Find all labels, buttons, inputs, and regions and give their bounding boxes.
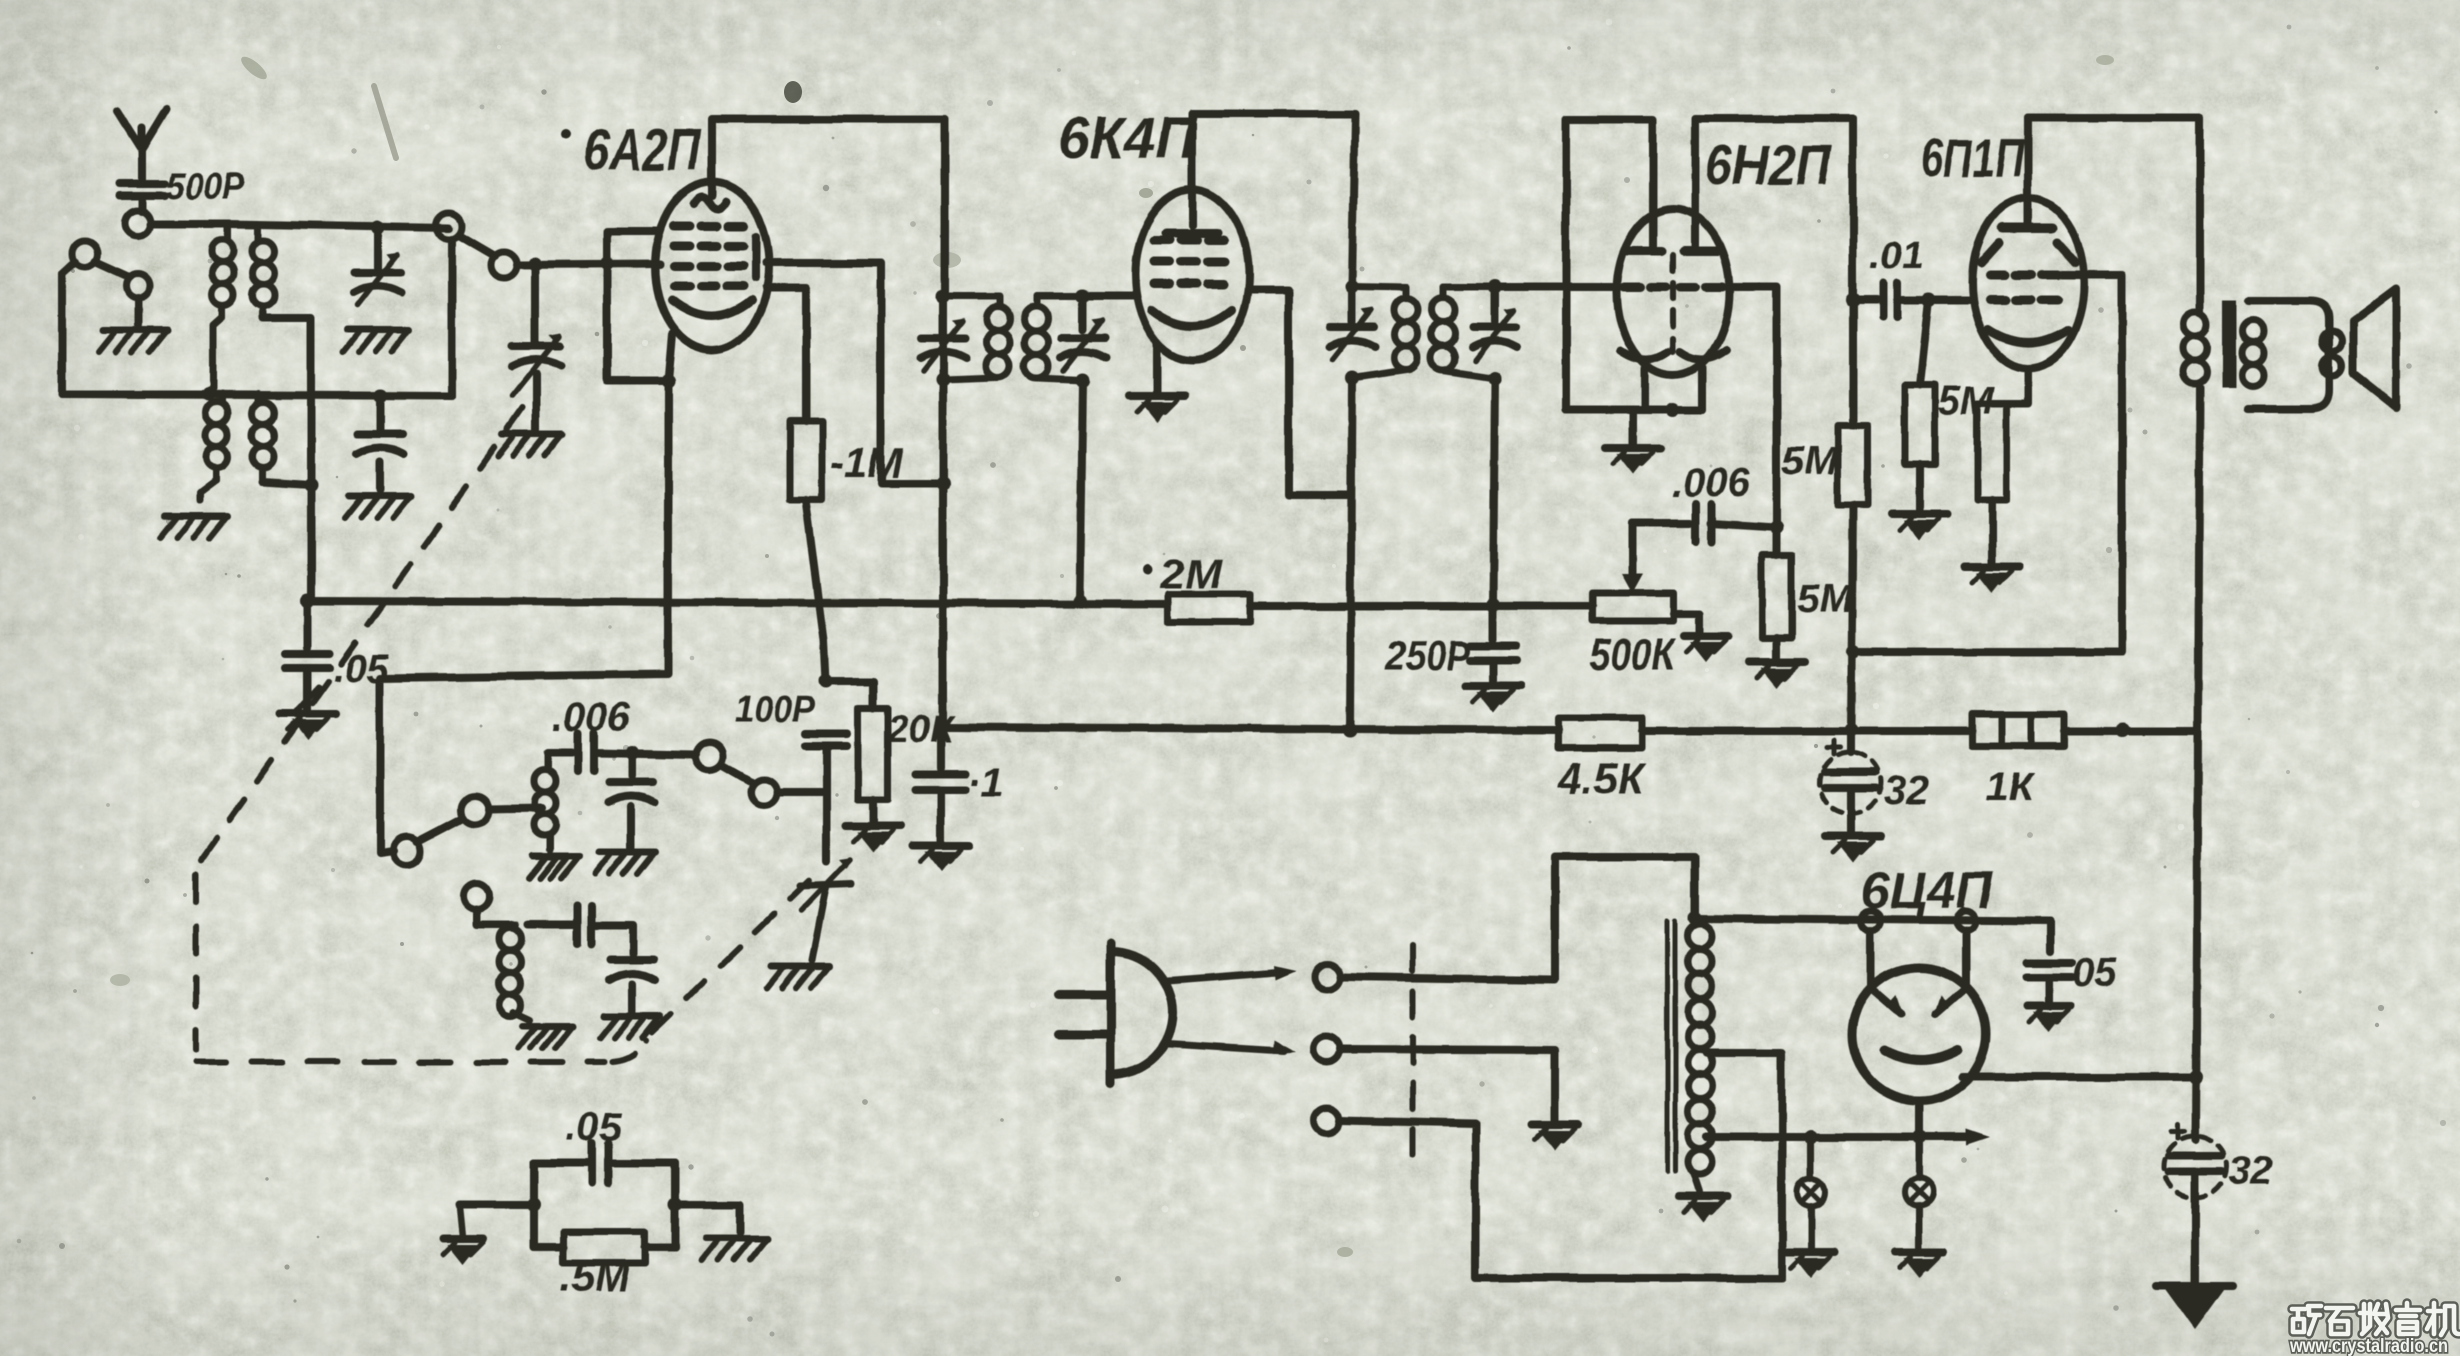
- wire C6 to ground: [628, 984, 636, 1012]
- resistor R11 2M: [1168, 594, 1250, 622]
- wire R7 to ground: [1988, 500, 1996, 562]
- ground under R6: [1892, 514, 1948, 540]
- wire plate feed: [1695, 918, 2050, 921]
- T6 winding: [1688, 924, 1713, 1175]
- label .05 bottom: [566, 1105, 622, 1149]
- terminal S1d pole: [696, 742, 724, 770]
- label tube V3 6Н2П: [1705, 133, 1833, 196]
- resistor R1 1M: [790, 421, 822, 500]
- svg-text:6К4П: 6К4П: [1058, 106, 1197, 171]
- node IFT1 top-right: [1076, 289, 1090, 303]
- wire x307 to C2: [303, 601, 311, 648]
- wire X2a: [1340, 857, 1695, 980]
- wire pot right to ground: [1673, 614, 1700, 632]
- ground under HL2: [1895, 1252, 1943, 1278]
- wire S1a contact to ground: [134, 298, 142, 325]
- node C1a top: [371, 221, 385, 235]
- trimmer C12: [1472, 287, 1518, 360]
- svg-text:·1: ·1: [968, 761, 1004, 805]
- svg-text:6А2П: 6А2П: [584, 118, 701, 183]
- wire C1a: [374, 228, 382, 268]
- wire L1a bottom: [213, 318, 222, 394]
- wire T6 bottom: [1694, 1174, 1700, 1192]
- label R6 5M: [1938, 379, 1995, 423]
- ground under R2: [845, 826, 901, 852]
- svg-text:05: 05: [2072, 951, 2117, 995]
- wire HL2 ground: [1916, 1206, 1923, 1248]
- tube V5 6Ц4П: [1852, 931, 1986, 1101]
- trimmer C4: [608, 782, 654, 802]
- dashed link X2: [1410, 945, 1416, 1172]
- wire grid leak column: [1773, 527, 1781, 555]
- watermark logo 矿石收音机: [2292, 1306, 2321, 1334]
- node V1 loop cross: [600, 257, 614, 271]
- T5 core: [2222, 300, 2236, 388]
- node RC left: [527, 1198, 541, 1212]
- capacitor C2 .05: [285, 654, 329, 668]
- node C1c tap: [528, 257, 542, 271]
- V3 grid dashes: [1624, 283, 1722, 292]
- label R5 5M: [1782, 439, 1839, 483]
- wire 250P column: [1489, 605, 1497, 640]
- label 2M: [1142, 550, 1223, 597]
- node T1 bottom: [202, 387, 216, 401]
- wire R6 to ground: [1916, 465, 1924, 510]
- node T6 top: [1688, 911, 1702, 925]
- ground under C13: [1465, 686, 1521, 712]
- switch S1b arm: [459, 235, 495, 256]
- node lamp1: [1804, 1130, 1818, 1144]
- tube V4 6П1П: [1972, 198, 2084, 368]
- wire C1b: [376, 396, 384, 430]
- wire C15 to V4 grid: [1898, 296, 1973, 304]
- plug arrow lower: [1168, 1040, 1296, 1054]
- node R1 column: [819, 674, 833, 688]
- node osc bottom: [304, 478, 318, 492]
- label R1 1M: [830, 439, 903, 486]
- ground under L2a: [160, 516, 228, 538]
- wire R2 to ground: [869, 800, 877, 822]
- node IFT2 top-right: [1488, 280, 1502, 294]
- wire RC left stub: [460, 1205, 534, 1235]
- terminal S1b pole: [436, 213, 462, 239]
- label .05: [333, 647, 389, 691]
- dashed gang link 2: [193, 874, 199, 1050]
- node IFT2 bottom-left: [1345, 371, 1359, 385]
- potentiometer R3 500K: [1593, 593, 1673, 621]
- ground under C1a: [343, 330, 409, 352]
- terminal S1c contact: [393, 837, 421, 865]
- svg-text:250Р: 250Р: [1385, 632, 1471, 679]
- ground under V2: [1129, 396, 1185, 422]
- node screen bus2: [2115, 723, 2129, 737]
- resistor R10 .5M: [534, 1231, 675, 1263]
- wire x1853 column: [1849, 119, 1857, 425]
- node out x2196: [2189, 1070, 2203, 1084]
- wire IFT1 right down: [1080, 380, 1083, 601]
- wire y394: [62, 394, 452, 396]
- wire x1352 down: [1350, 378, 1352, 730]
- label 1K: [1986, 765, 2035, 809]
- wire RC right stub: [675, 1205, 740, 1232]
- tube V1 6А2П: [655, 182, 769, 350]
- node V3 cathode: [1666, 403, 1680, 417]
- node V1 cathode join: [661, 374, 675, 388]
- dashed gang link 3: [196, 1059, 604, 1065]
- wire V3 grid in: [1495, 283, 1618, 291]
- capacitor C14 .006: [1696, 504, 1712, 542]
- trimmer C6: [609, 960, 655, 980]
- wire X2c: [1340, 1053, 1782, 1278]
- svg-text:6П1П: 6П1П: [1920, 128, 2025, 188]
- wire to R2: [826, 681, 873, 708]
- wire V1 osc loop: [607, 231, 668, 381]
- lamp HL2: [1905, 1137, 1933, 1206]
- switch S1c arm: [417, 818, 463, 842]
- wire X2b: [1340, 1049, 1555, 1120]
- wire x943 column: [939, 296, 947, 725]
- node IFT1 top-left: [936, 289, 950, 303]
- terminal V5 plate1: [1861, 911, 1881, 931]
- wire L3 top: [548, 749, 572, 757]
- wire IFT2 right down: [1493, 378, 1495, 605]
- wire HL1 ground: [1808, 1206, 1815, 1248]
- label 500K: [1590, 630, 1676, 679]
- node C1b: [373, 389, 387, 403]
- label tube V1 6А2П: [561, 118, 701, 183]
- node bus1 x1080: [1073, 594, 1087, 608]
- resistor R7: [1977, 404, 2007, 500]
- wire x2200 down: [2196, 118, 2204, 312]
- resistor R2 20K: [858, 708, 888, 800]
- svg-text:100Р: 100Р: [735, 689, 816, 731]
- node IFT2 top-left: [1345, 279, 1359, 293]
- wire C4 to ground: [627, 806, 635, 848]
- ground under C1b: [345, 496, 411, 518]
- wire wiper to C14: [1632, 519, 1690, 527]
- wire S1b pole down: [448, 239, 456, 396]
- wire C5 to C6: [592, 925, 633, 954]
- dashed gang link 4: [652, 868, 822, 1032]
- wire L2b bottom: [262, 482, 311, 485]
- ground T6 bottom: [1679, 1196, 1727, 1222]
- IF transformer T3 coil left: [943, 296, 1010, 380]
- label tube V5 6Ц4П: [1861, 862, 1995, 920]
- node x1853 tap01: [1846, 293, 1860, 307]
- wire AVC bus: [307, 601, 1593, 606]
- wire x311 down: [307, 394, 315, 601]
- wire V2 avc return: [1249, 290, 1349, 495]
- wire C16 stub: [1847, 730, 1855, 752]
- node V4 grid: [1922, 293, 1936, 307]
- coil L1a: [212, 224, 234, 318]
- V3 anode bar right: [1684, 247, 1718, 256]
- V3 anode bar left: [1628, 247, 1662, 256]
- resistor R6 5M: [1905, 385, 1935, 465]
- speaker voice coil: [2248, 301, 2342, 409]
- ground X2b: [1532, 1124, 1578, 1150]
- V3 divider: [1670, 255, 1676, 352]
- svg-text:32: 32: [2228, 1149, 2273, 1193]
- wire R4 to ground: [1773, 638, 1781, 658]
- dashed gang link hook: [612, 1040, 646, 1062]
- coil L3: [534, 753, 556, 836]
- wire lamp bus: [1707, 1129, 1990, 1145]
- lamp HL1: [1797, 1137, 1825, 1206]
- label .01: [1870, 235, 1923, 277]
- variable capacitor C1c: [511, 333, 562, 396]
- capacitor C19 32uF: [2164, 1124, 2226, 1198]
- capacitor C5: [527, 906, 592, 944]
- wire L2a to ground: [200, 480, 216, 500]
- coil L4: [499, 925, 521, 1016]
- wire C14 to grid column: [1711, 523, 1777, 527]
- node IFT1 bottom-left: [936, 373, 950, 387]
- ground under V3: [1605, 448, 1661, 474]
- wire V2 top rail down: [1352, 114, 1355, 286]
- terminal S1b contact: [491, 252, 517, 278]
- power plug X1: [2, 0, 1173, 1084]
- wire C13 to ground: [1489, 660, 1497, 682]
- ground under L4: [519, 1026, 573, 1048]
- dashed gang link 1: [200, 408, 522, 862]
- trimmer C10: [1060, 296, 1106, 371]
- wire RC right: [671, 1163, 679, 1247]
- terminal S1e open contact: [464, 883, 490, 909]
- label 500P: [166, 166, 245, 208]
- wire C1c column: [531, 264, 539, 342]
- terminal S1a contact: [126, 274, 150, 298]
- wire bus2 corner down: [2196, 730, 2198, 1140]
- wire C8 to ground: [812, 888, 826, 960]
- ground under C6: [600, 1016, 660, 1038]
- terminal S1c pole: [461, 796, 489, 824]
- pot wiper: [1621, 523, 1643, 594]
- wire bus2: [941, 727, 2198, 731]
- node x1853 bus2: [1844, 723, 1858, 737]
- wire S1b to tube grid: [517, 264, 660, 265]
- label .006 upper: [552, 695, 631, 739]
- output transformer T5 primary: [2183, 312, 2207, 384]
- wire T6 tap mid: [1707, 1050, 1709, 1057]
- svg-text:www.crystalradio.cn: www.crystalradio.cn: [2289, 1336, 2448, 1356]
- ground under C17: [913, 846, 969, 872]
- node lamp2: [1912, 1130, 1926, 1144]
- wire V4 cathode: [1992, 368, 2028, 404]
- variable capacitor C1b: [356, 434, 404, 454]
- capacitor C16 32uF: [1819, 740, 1881, 832]
- wire T6 tap lamps: [1707, 1133, 1812, 1141]
- ground RC right: [702, 1238, 768, 1260]
- svg-text:6Н2П: 6Н2П: [1705, 133, 1833, 196]
- capacitor C-ant 500P: [119, 184, 165, 196]
- IF transformer T4 coil right: [1431, 287, 1495, 378]
- trimmer C8 arrow: [800, 858, 852, 910]
- svg-text:5М: 5М: [1782, 439, 1839, 483]
- label 32 second: [2228, 1149, 2273, 1193]
- svg-text:500Р: 500Р: [166, 166, 245, 208]
- coil L2a: [206, 394, 228, 480]
- wire C3 to S1d: [594, 753, 696, 755]
- wire R1 bottom column: [806, 500, 826, 681]
- terminal X2b: [1314, 1036, 1340, 1062]
- coil L2b: [252, 394, 274, 482]
- wire antenna terminal to coil bus: [151, 220, 228, 228]
- wire tap to C15: [1853, 296, 1877, 304]
- capacitor C13 250P: [1470, 646, 1516, 660]
- svg-text:.05: .05: [566, 1105, 622, 1149]
- capacitor C15 .01: [1883, 283, 1897, 317]
- wire C2 to ground: [294, 668, 318, 714]
- wire V1 cathode: [668, 334, 672, 381]
- svg-text:5М: 5М: [1797, 577, 1854, 621]
- label R4 5M: [1797, 577, 1854, 621]
- svg-text:1К: 1К: [1986, 765, 2035, 809]
- wire IFT1 to V2 grid: [1083, 292, 1135, 300]
- IF transformer T4 coil left: [1352, 286, 1418, 378]
- svg-text:.006: .006: [552, 695, 631, 739]
- ground under C1c: [498, 434, 562, 456]
- label 4.5K: [1557, 754, 1647, 803]
- wire RC frame: [530, 1163, 538, 1247]
- svg-text:2М: 2М: [1159, 550, 1223, 597]
- node screen loop join: [1846, 645, 1860, 659]
- V3 cathode leads: [1566, 368, 1702, 410]
- capacitor C17 .1: [916, 727, 966, 790]
- label 05: [2072, 951, 2117, 995]
- label 250P: [1385, 632, 1471, 679]
- wire V1 top rail down: [941, 119, 949, 296]
- wire C18 ground: [2045, 978, 2053, 1002]
- terminal S1a pole: [72, 241, 98, 267]
- svg-text:.01: .01: [1870, 235, 1923, 277]
- label tube V4 6П1П: [1920, 128, 2025, 188]
- node grid column tap: [1770, 520, 1784, 534]
- variable capacitor C1a: [354, 252, 402, 305]
- wire V2 plate top: [1192, 114, 1355, 225]
- wire V4 screen loop: [1853, 275, 2122, 652]
- V3 anode2 feed: [1695, 119, 1853, 251]
- wire S1e down: [477, 909, 512, 925]
- switch S1d arm: [722, 765, 752, 782]
- tube V3 6Н2П oval: [1617, 209, 1729, 375]
- paper stains: [110, 53, 2114, 1257]
- T5 secondary: [2242, 320, 2264, 386]
- terminal antenna jack: [125, 210, 151, 236]
- capacitor C18 .05: [2026, 921, 2072, 977]
- ground under C19: [2157, 1286, 2233, 1330]
- wire left frame: [62, 262, 207, 394]
- trimmer C11: [1329, 286, 1375, 360]
- wire C4 column: [628, 753, 636, 776]
- svg-text:.5М: .5М: [560, 1253, 631, 1300]
- IF transformer T3 coil right: [1024, 296, 1083, 380]
- antenna W1: [118, 109, 167, 183]
- label tube V2 6К4П: [1058, 106, 1197, 171]
- ground RC left: [443, 1239, 483, 1265]
- terminal X2a: [1314, 964, 1340, 990]
- wire V3 cathode ground: [1629, 410, 1637, 444]
- ground under S1a: [99, 330, 167, 352]
- ground under L3: [529, 836, 579, 878]
- svg-text:4.5К: 4.5К: [1557, 754, 1647, 803]
- node screen join: [936, 476, 950, 490]
- wire C19 ground: [2191, 1172, 2199, 1282]
- node RC right: [668, 1198, 682, 1212]
- ground under C8: [767, 966, 829, 988]
- svg-text:-1М: -1М: [830, 439, 903, 486]
- coil L1b: [252, 224, 274, 312]
- label .1: [968, 761, 1004, 805]
- capacitor C3 .006: [578, 733, 594, 771]
- resistor R8 4.5K: [1558, 718, 1642, 748]
- resistor R9 1K: [1972, 714, 2064, 746]
- svg-text:32: 32: [1884, 769, 1929, 813]
- T6 core: [1667, 922, 1675, 1172]
- label .006 right: [1672, 461, 1751, 505]
- wire V1 grid leak path: [380, 381, 668, 853]
- wire grid resistor stub: [1920, 300, 1929, 385]
- ground under C16: [1825, 836, 1881, 862]
- wire V1 screen: [766, 263, 943, 483]
- label R2 20K: [887, 709, 956, 751]
- label C7 100P: [735, 689, 816, 731]
- svg-text:500К: 500К: [1590, 630, 1676, 679]
- V3 plate loop: [1566, 120, 1653, 410]
- wire V4 plate: [2024, 118, 2032, 228]
- wire top bus y224: [228, 224, 449, 228]
- wire V1 anode2 lower: [766, 288, 806, 421]
- plug arrow upper: [1168, 966, 1296, 981]
- wire V5 out: [1962, 1073, 2196, 1081]
- V3 cathode arcs: [1620, 350, 1726, 360]
- wire L4 ground hook: [513, 1012, 530, 1020]
- node bus1 left: [300, 594, 314, 608]
- capacitor C20 .05: [534, 1143, 675, 1183]
- label 32 first: [1884, 769, 1929, 813]
- resistor R5 5M: [1838, 425, 1868, 505]
- node C3 tap: [625, 746, 639, 760]
- wire R5 to bus2: [1851, 505, 1853, 730]
- svg-text:.006: .006: [1672, 461, 1751, 505]
- resistor R4 5M: [1762, 555, 1792, 638]
- wire S1d to column: [777, 788, 826, 796]
- label .5M: [560, 1253, 631, 1300]
- wire L1b bottom: [262, 312, 311, 394]
- ground under HL1: [1787, 1252, 1835, 1278]
- terminal X2c: [1314, 1107, 1340, 1133]
- wire C1c to ground: [532, 374, 540, 430]
- wire V2 cathode: [1153, 342, 1161, 392]
- node IFT1 bottom-right: [1076, 373, 1090, 387]
- node bus1 x1493: [1486, 598, 1500, 612]
- tube V2 6К4П: [1135, 190, 1249, 360]
- wire C7 down: [822, 747, 830, 862]
- capacitor C7 100P: [805, 734, 847, 746]
- ground under C4: [595, 852, 655, 874]
- ground under R4: [1749, 662, 1805, 688]
- wire V3 grid out: [1728, 287, 1777, 527]
- ground under pot: [1684, 636, 1728, 662]
- node bus2 x1350: [1343, 723, 1357, 737]
- terminal S1d contact: [751, 779, 777, 805]
- terminal V5 plate2: [1956, 911, 1976, 931]
- wire S1c pole to L3: [489, 808, 542, 809]
- wire C17 to ground: [937, 790, 945, 842]
- ground under R7: [1964, 566, 2020, 592]
- wire V1 plate top: [712, 119, 945, 182]
- speaker horn: [2353, 289, 2396, 407]
